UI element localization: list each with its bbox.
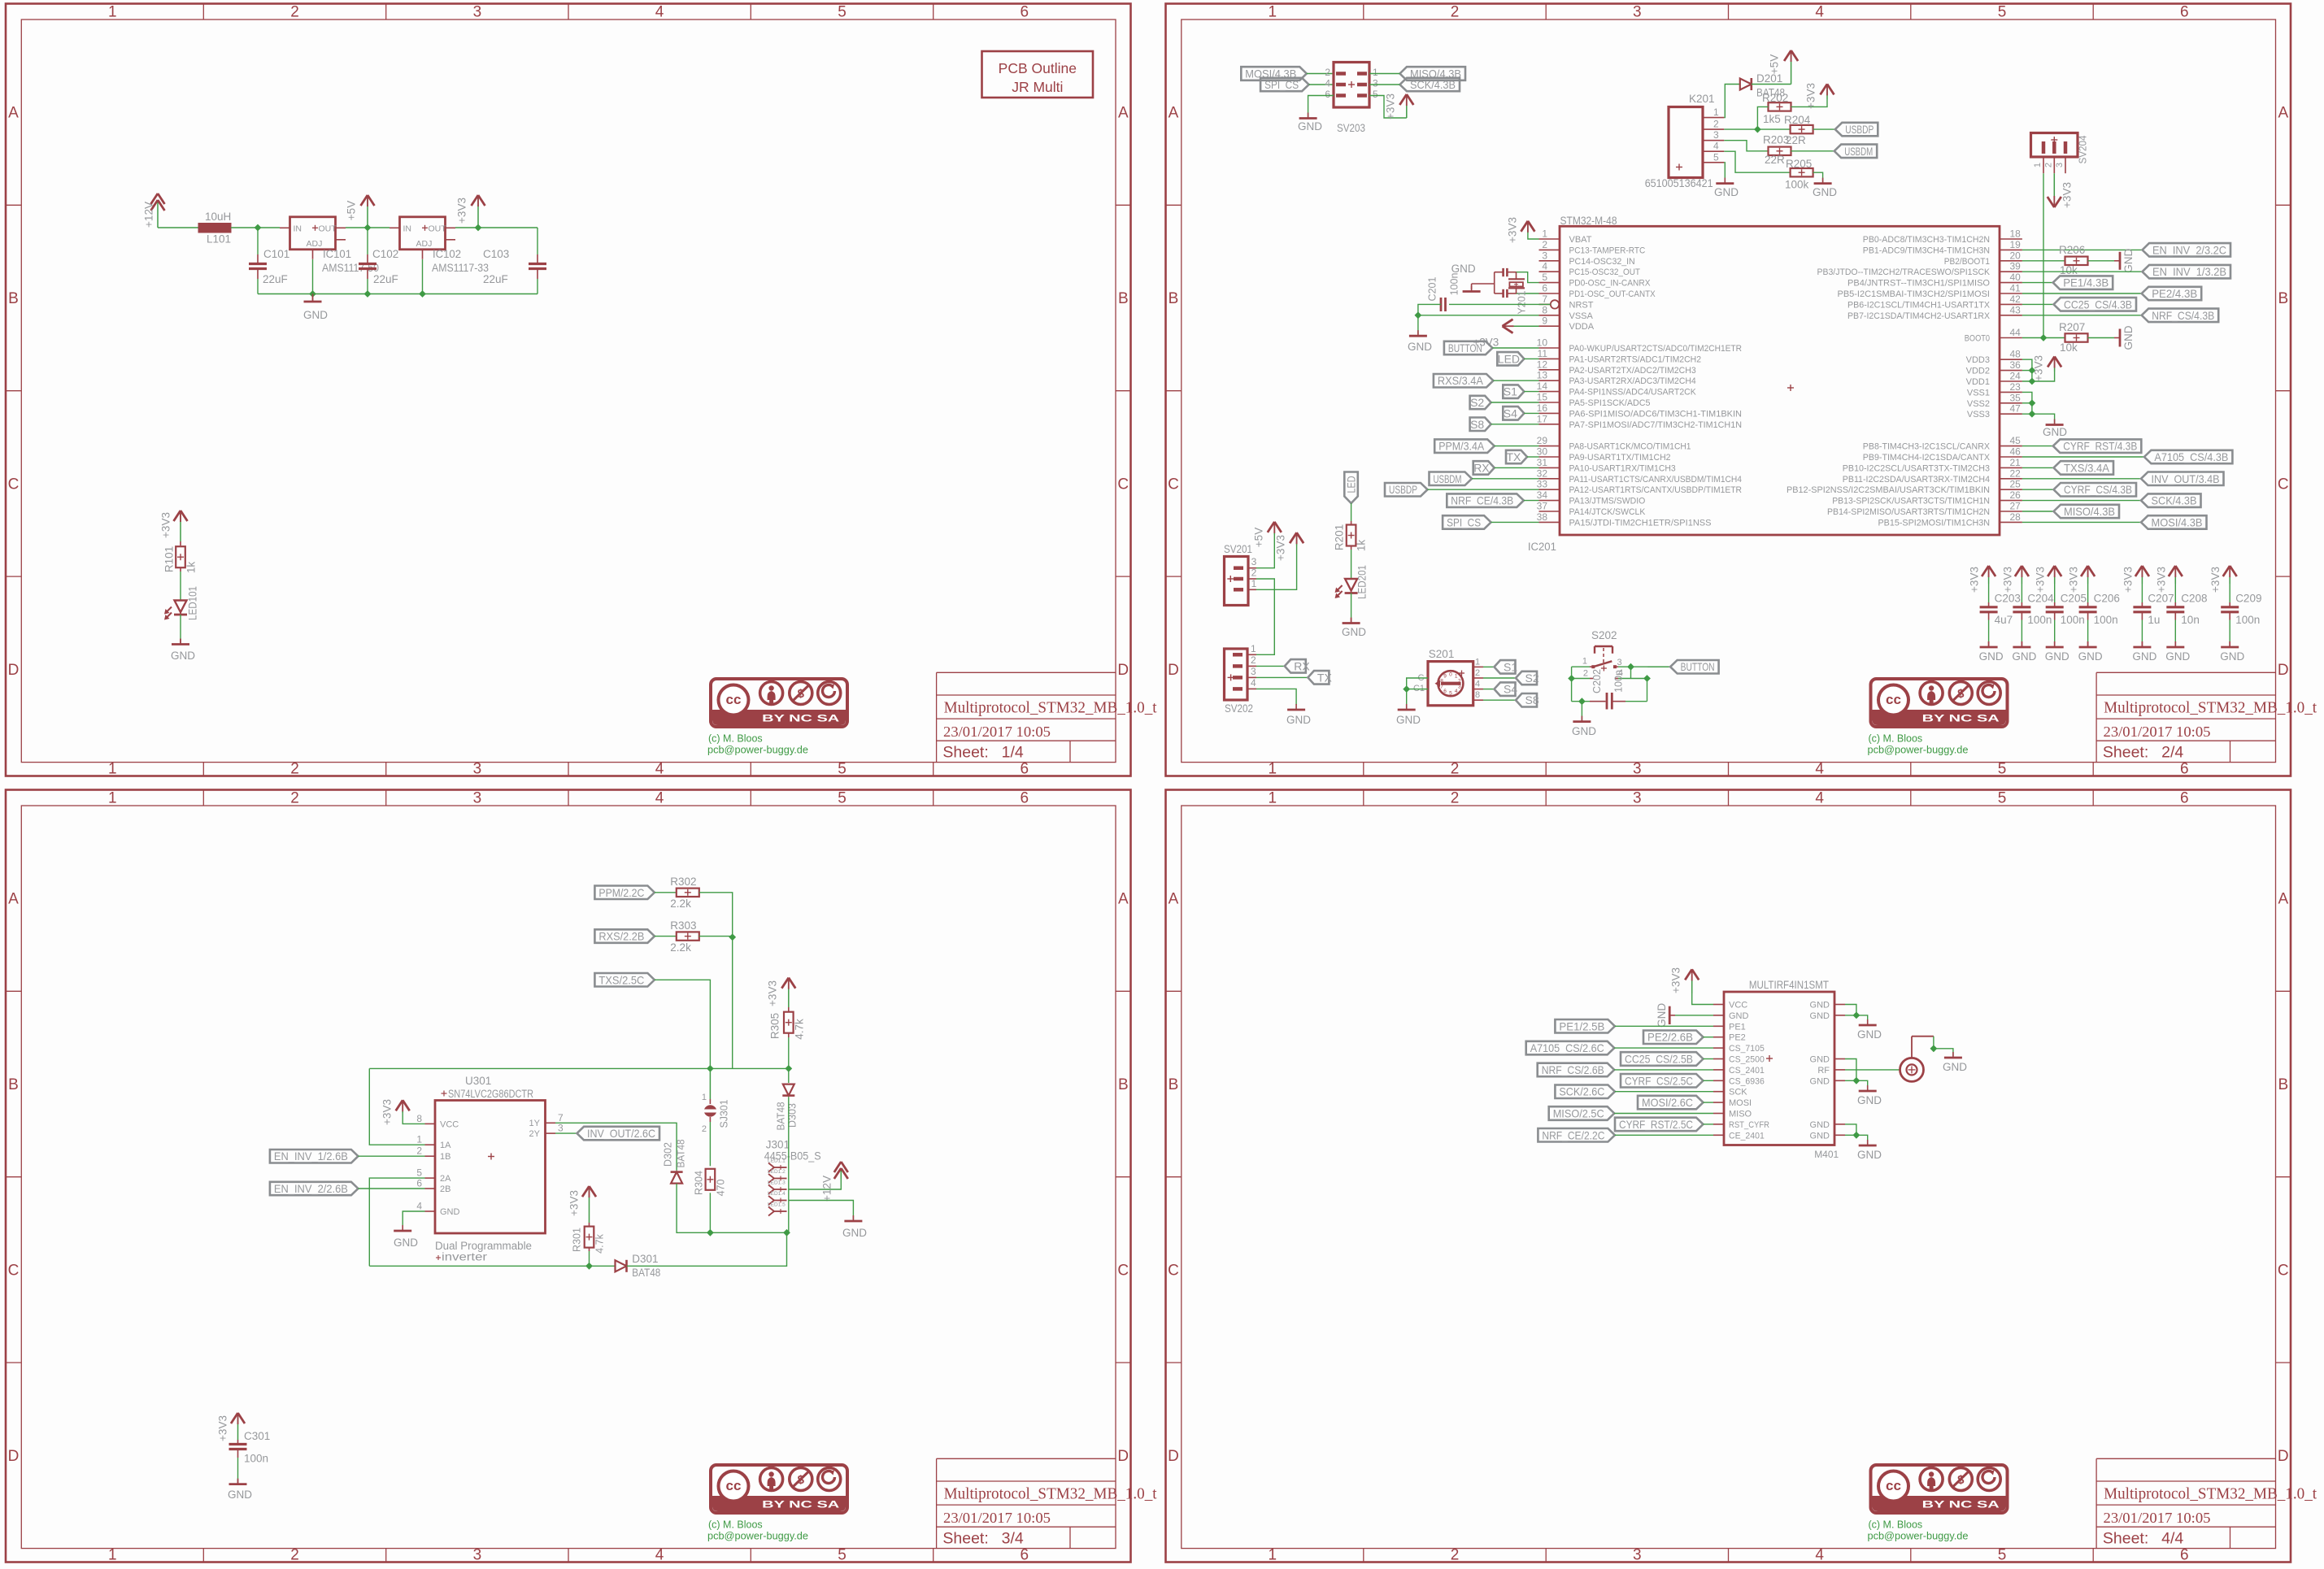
microcontroller IC201 STM32-M-48: [1528, 215, 2000, 553]
wire K201 pin3 to R203: [1724, 141, 1768, 151]
resistor R205 100k: [1785, 158, 1813, 191]
GND rail: [258, 293, 537, 295]
svg-text:PPM/3.4A: PPM/3.4A: [1438, 440, 1485, 453]
IC201 VDD/VSS pins: [1966, 349, 2022, 420]
svg-text:1: 1: [416, 1134, 422, 1145]
copyright text: [707, 733, 808, 756]
VSS wiring to GND: [2022, 392, 2055, 424]
IC201 pins 18-43 right top: [1817, 228, 2022, 321]
svg-text:R302: R302: [670, 876, 696, 888]
resistor R305 4.7k: [769, 1007, 806, 1040]
svg-text:GND: GND: [1810, 1120, 1830, 1130]
svg-text:2: 2: [290, 761, 299, 778]
svg-text:R101: R101: [163, 546, 176, 572]
svg-text:U301: U301: [465, 1075, 491, 1087]
net flag EN_INV_2/3.2C: [2143, 243, 2231, 257]
svg-text:CS_2401: CS_2401: [1729, 1066, 1765, 1076]
svg-text:44: 44: [2010, 327, 2022, 338]
svg-text:IC102: IC102: [433, 248, 461, 260]
svg-text:LED101: LED101: [187, 586, 199, 620]
svg-text:100n: 100n: [244, 1453, 268, 1465]
sheet frame: [6, 4, 1131, 778]
svg-text:C: C: [8, 1262, 20, 1279]
ground symbol GND: [303, 294, 328, 322]
sheet frame: [1166, 790, 2291, 1564]
voltage regulator IC102 AMS1117-33: [390, 217, 489, 274]
svg-text:PD0-OSC_IN-CANRX: PD0-OSC_IN-CANRX: [1569, 279, 1652, 289]
svg-text:IN: IN: [294, 224, 302, 233]
svg-text:LED201: LED201: [1356, 565, 1369, 599]
CC BY-NC-SA logo: [711, 679, 847, 727]
net flag LED (vertical): [1344, 472, 1358, 504]
svg-text:A: A: [2278, 891, 2288, 908]
wire SV202 pin4 to GND: [1256, 689, 1296, 705]
wire pin20 to R206: [2022, 260, 2065, 262]
module GND pins mid to GND: [1845, 1059, 1868, 1090]
svg-text:GND: GND: [1729, 1011, 1749, 1021]
svg-text:5: 5: [416, 1167, 422, 1179]
svg-text:PA0-WKUP/USART2CTS/ADC0/TIM2CH: PA0-WKUP/USART2CTS/ADC0/TIM2CH1ETR: [1569, 344, 1743, 354]
ground symbol GND (R205): [1813, 178, 1837, 198]
svg-text:4: 4: [1542, 261, 1547, 272]
svg-text:R206: R206: [2059, 244, 2085, 256]
svg-text:GND: GND: [1810, 1055, 1830, 1065]
sheet frame: [1166, 4, 2291, 778]
svg-text:3: 3: [1633, 790, 1642, 807]
svg-text:LED1.3: LED1.3: [768, 1180, 786, 1186]
wire LED101 to GND: [180, 615, 181, 645]
lower rail (2A net): [369, 1263, 615, 1270]
wire R101 to LED101: [180, 572, 181, 601]
wire TXS down to SJ301: [655, 980, 711, 1068]
resistor R206 10k: [2059, 244, 2088, 276]
svg-text:1: 1: [108, 1547, 117, 1564]
capacitor C201 100n: [1418, 277, 1551, 315]
+5V power symbol: [346, 195, 375, 228]
svg-text:B: B: [8, 290, 19, 307]
svg-text:MOSI/2.6C: MOSI/2.6C: [1642, 1096, 1693, 1109]
net flag NRF_CE/4.3B: [1447, 493, 1538, 507]
svg-text:+3V3: +3V3: [1805, 83, 1817, 109]
svg-text:BUTTON: BUTTON: [1448, 341, 1482, 354]
wire R202 left junction: [1754, 106, 1769, 133]
svg-text:AMS1117-33: AMS1117-33: [432, 262, 489, 274]
ground symbol GND (C301): [228, 1479, 252, 1501]
net flag RX (SV202): [1285, 659, 1311, 673]
wire J301 pin4 to GND: [789, 1201, 854, 1220]
svg-text:48: 48: [2010, 349, 2022, 360]
svg-text:C209: C209: [2235, 593, 2261, 605]
svg-text:C: C: [1168, 1262, 1179, 1279]
svg-text:5: 5: [1373, 89, 1378, 100]
svg-text:100n: 100n: [2061, 614, 2085, 626]
svg-text:1: 1: [1269, 4, 1277, 21]
svg-text:4: 4: [1815, 790, 1824, 807]
svg-text:651005136421: 651005136421: [1645, 177, 1713, 189]
svg-text:4.7k: 4.7k: [594, 1233, 606, 1253]
svg-text:19: 19: [2010, 239, 2022, 250]
svg-text:S8: S8: [1525, 693, 1539, 706]
svg-text:3/4: 3/4: [1002, 1530, 1024, 1548]
svg-text:2.2k: 2.2k: [670, 898, 691, 910]
wire pin39 to EN_INV_1: [2022, 271, 2143, 272]
net flag BUTTON: [1444, 341, 1539, 354]
svg-text:2/4: 2/4: [2161, 744, 2183, 762]
svg-text:RXS/3.4A: RXS/3.4A: [1438, 374, 1484, 387]
svg-text:3: 3: [1633, 761, 1642, 778]
svg-text:3: 3: [1458, 685, 1461, 690]
wire 1Y to D302: [555, 1123, 677, 1170]
svg-text:C: C: [1117, 1262, 1129, 1279]
svg-text:18: 18: [2010, 228, 2022, 240]
svg-text:ADJ: ADJ: [307, 239, 323, 249]
svg-text:C201: C201: [1427, 277, 1438, 302]
svg-text:SN74LVC2G86DCTR: SN74LVC2G86DCTR: [448, 1088, 533, 1100]
ground symbol GND (K201): [1714, 178, 1739, 198]
antenna connector X401: [1900, 1037, 1934, 1082]
net flag MISO/4.3B: [1400, 67, 1466, 80]
net flag S1: [1503, 385, 1538, 398]
wire RXS to R303: [655, 936, 677, 937]
svg-text:3: 3: [1251, 556, 1257, 567]
svg-text:IN: IN: [403, 224, 412, 233]
svg-text:+3V3: +3V3: [456, 198, 468, 224]
wire SV201 pin2 to SV202 pin1: [1256, 579, 1274, 654]
svg-text:4: 4: [1455, 689, 1458, 694]
svg-text:GND: GND: [1286, 714, 1311, 726]
svg-text:cc: cc: [726, 692, 742, 707]
svg-text:PE1: PE1: [1729, 1022, 1746, 1032]
svg-text:4: 4: [655, 1547, 664, 1564]
svg-text:31: 31: [1537, 457, 1548, 468]
junction node C101 tap: [255, 224, 262, 232]
svg-text:cc: cc: [726, 1478, 742, 1493]
net flag MOSI/2.6C: [1638, 1096, 1713, 1110]
svg-text:GND: GND: [1714, 186, 1739, 198]
net flag SCK/4.3B: [1400, 78, 1460, 91]
svg-text:A: A: [8, 891, 19, 908]
capacitor C101 22uF: [249, 228, 289, 294]
svg-text:2: 2: [2044, 163, 2054, 167]
svg-text:2: 2: [1251, 654, 1256, 666]
svg-text:4: 4: [1815, 1547, 1824, 1564]
svg-text:42: 42: [2010, 293, 2022, 305]
wire IC101 out: [346, 227, 390, 228]
wire LED flag to R201: [1351, 503, 1352, 521]
svg-text:GND: GND: [1810, 1076, 1830, 1086]
svg-text:+3V3: +3V3: [767, 980, 779, 1006]
net flag CYRF_CS/2.5C: [1621, 1074, 1713, 1088]
wire K201 pin1 to D201: [1724, 85, 1740, 118]
svg-text:1: 1: [1269, 1547, 1277, 1564]
svg-text:36: 36: [2010, 359, 2022, 371]
svg-text:Multiprotocol_STM32_MB_1.0_t: Multiprotocol_STM32_MB_1.0_t: [2104, 700, 2317, 717]
svg-text:6: 6: [2180, 1547, 2189, 1564]
svg-text:S2: S2: [1525, 671, 1539, 685]
svg-text:1: 1: [108, 4, 117, 21]
IC201 pins 29-38: [1537, 435, 1742, 528]
svg-text:3: 3: [473, 4, 482, 21]
svg-text:2: 2: [290, 790, 299, 807]
svg-text:OUT: OUT: [319, 224, 337, 233]
svg-text:4: 4: [1713, 141, 1719, 152]
svg-text:A: A: [1118, 105, 1129, 122]
svg-text:470: 470: [716, 1180, 727, 1197]
+5V power symbol (SV201): [1253, 522, 1282, 547]
ground symbol GND (module mid): [1857, 1085, 1882, 1106]
svg-text:USBDP: USBDP: [1845, 123, 1874, 136]
resistor R204 22R: [1784, 114, 1813, 146]
svg-text:4: 4: [1325, 78, 1330, 89]
svg-text:6: 6: [1021, 761, 1029, 778]
svg-text:PA7-SPI1MOSI/ADC7/TIM3CH2-TIM1: PA7-SPI1MOSI/ADC7/TIM3CH2-TIM1CH1N: [1569, 420, 1743, 430]
capacitor C206 100n: [2068, 566, 2120, 663]
svg-text:7: 7: [1542, 293, 1547, 305]
svg-text:1u: 1u: [2148, 614, 2160, 626]
svg-text:LED1.5: LED1.5: [768, 1202, 786, 1208]
capacitor C209 100n: [2209, 566, 2261, 663]
wire U301 GND pin: [403, 1211, 424, 1229]
svg-text:1: 1: [1475, 657, 1480, 667]
svg-text:Sheet:: Sheet:: [2103, 1530, 2148, 1548]
svg-text:NRF_CS/2.6B: NRF_CS/2.6B: [1542, 1063, 1604, 1076]
resistor R202 1k5: [1762, 92, 1791, 125]
svg-text:10: 10: [1537, 337, 1548, 349]
svg-text:+3V3: +3V3: [217, 1415, 229, 1441]
svg-text:VBAT: VBAT: [1569, 235, 1592, 245]
svg-text:JR Multi: JR Multi: [1012, 79, 1063, 95]
svg-text:S201: S201: [1429, 648, 1455, 660]
svg-text:2: 2: [1451, 790, 1460, 807]
svg-text:CYRF_CS/4.3B: CYRF_CS/4.3B: [2064, 483, 2132, 496]
svg-text:GND: GND: [440, 1207, 460, 1217]
net flag USBDM: [1430, 472, 1539, 486]
svg-text:USBDM: USBDM: [1434, 472, 1462, 485]
svg-text:23/01/2017 10:05: 23/01/2017 10:05: [2104, 1510, 2211, 1526]
svg-text:GND: GND: [1656, 1003, 1668, 1028]
svg-text:GND: GND: [1408, 341, 1432, 353]
connector SV202: [1225, 643, 1257, 715]
svg-text:LED1.4: LED1.4: [768, 1191, 786, 1197]
svg-text:PA9-USART1TX/TIM1CH2: PA9-USART1TX/TIM1CH2: [1569, 453, 1671, 463]
capacitor C204 100n: [2001, 566, 2054, 663]
svg-text:22: 22: [2010, 467, 2022, 479]
svg-text:1: 1: [1269, 790, 1277, 807]
svg-text:EN_INV_1/2.6B: EN_INV_1/2.6B: [274, 1150, 348, 1163]
svg-text:inverter: inverter: [442, 1251, 488, 1263]
svg-text:R305: R305: [769, 1013, 781, 1039]
net flag CYRF_RST/4.3B: [2022, 439, 2141, 453]
svg-text:0: 0: [1449, 671, 1452, 677]
svg-text:+3V3: +3V3: [160, 512, 172, 538]
wire R305 to rail: [788, 1037, 790, 1068]
svg-text:3: 3: [1542, 250, 1547, 261]
svg-text:16: 16: [1537, 402, 1548, 414]
wire R203 to USBDM: [1791, 150, 1834, 152]
svg-text:22R: 22R: [1765, 154, 1785, 166]
svg-text:C207: C207: [2148, 593, 2174, 605]
svg-text:+3V3: +3V3: [568, 1190, 581, 1216]
svg-text:SV203: SV203: [1337, 122, 1365, 134]
wire SV203 to MISO: [1369, 73, 1400, 75]
svg-text:24: 24: [2010, 371, 2022, 382]
svg-text:GND: GND: [1857, 1094, 1882, 1106]
svg-text:S202: S202: [1591, 629, 1617, 641]
svg-text:2: 2: [1583, 669, 1588, 679]
svg-text:MOSI: MOSI: [1729, 1098, 1752, 1108]
svg-text:(c) M. Bloos: (c) M. Bloos: [1869, 1519, 1923, 1531]
net flag RX: [1473, 461, 1539, 475]
capacitor C301 100n: [229, 1430, 271, 1484]
net flag NRF_CE/2.2C: [1538, 1128, 1713, 1142]
svg-text:CS_2500: CS_2500: [1729, 1055, 1765, 1065]
svg-text:+3V3: +3V3: [1670, 967, 1682, 993]
svg-text:A7105_CS/4.3B: A7105_CS/4.3B: [2154, 450, 2228, 463]
svg-text:5: 5: [838, 4, 846, 21]
svg-text:K201: K201: [1689, 93, 1715, 105]
wire L101 to IC101: [231, 227, 280, 228]
svg-text:GND: GND: [1857, 1028, 1882, 1041]
svg-text:(c) M. Bloos: (c) M. Bloos: [708, 733, 763, 745]
svg-text:D: D: [2278, 662, 2289, 679]
svg-text:PA5-SPI1SCK/ADC5: PA5-SPI1SCK/ADC5: [1569, 398, 1651, 408]
svg-text:+3V3: +3V3: [2061, 182, 2074, 208]
svg-text:PA11-USART1CTS/CANRX/USBDM/TIM: PA11-USART1CTS/CANRX/USBDM/TIM1CH4: [1569, 475, 1743, 485]
svg-text:PA10-USART1RX/TIM1CH3: PA10-USART1RX/TIM1CH3: [1569, 463, 1676, 473]
net flag S4 (S201): [1495, 682, 1518, 696]
svg-text:5: 5: [1998, 790, 2007, 807]
svg-text:A: A: [1169, 105, 1179, 122]
svg-text:3: 3: [1373, 78, 1378, 89]
net flag RXS/2.2B: [594, 929, 655, 943]
wire R204 to USBDP: [1813, 128, 1835, 130]
net flag BUTTON (S202): [1670, 660, 1719, 674]
svg-text:4: 4: [416, 1201, 422, 1212]
wire SV201 pin3 to +5V: [1256, 535, 1274, 568]
title block: [2096, 672, 2317, 762]
svg-text:MOSI/4.3B: MOSI/4.3B: [2152, 515, 2203, 528]
svg-text:C: C: [1168, 476, 1179, 493]
+3V3 arrow left (VDDA): [1473, 319, 1538, 349]
svg-text:IC201: IC201: [1528, 541, 1556, 553]
wire SV203 pin5 to +3V3: [1369, 96, 1407, 119]
net flag CC25_CS/4.3B: [2054, 298, 2137, 311]
net flag CC25_CS/2.5B: [1621, 1052, 1713, 1066]
svg-text:PB11-I2C2SDA/USART3RX-TIM2CH4: PB11-I2C2SDA/USART3RX-TIM2CH4: [1843, 475, 1990, 485]
svg-text:R303: R303: [670, 919, 696, 932]
svg-text:B: B: [1118, 1076, 1129, 1093]
connector SV201: [1224, 543, 1257, 606]
svg-text:NRF_CS/4.3B: NRF_CS/4.3B: [2152, 309, 2214, 322]
svg-text:3: 3: [1617, 658, 1622, 667]
svg-text:S4: S4: [1504, 683, 1517, 696]
svg-text:1: 1: [1582, 657, 1587, 667]
svg-text:Sheet:: Sheet:: [2103, 744, 2148, 762]
net flag TXS/2.5C: [594, 973, 655, 987]
svg-text:C: C: [8, 476, 20, 493]
wire RF to antenna: [1845, 1069, 1900, 1071]
svg-text:100n: 100n: [2235, 614, 2260, 626]
svg-text:SPI_CS: SPI_CS: [1264, 78, 1299, 91]
module GND pins top to GND: [1845, 1005, 1868, 1024]
svg-text:2Y: 2Y: [529, 1129, 541, 1139]
svg-text:D: D: [2278, 1448, 2289, 1465]
svg-text:1A: 1A: [440, 1141, 451, 1150]
svg-text:10k: 10k: [2060, 341, 2078, 354]
svg-text:GND: GND: [1810, 1011, 1830, 1021]
svg-text:GND: GND: [2012, 650, 2036, 663]
title block: [937, 1458, 1158, 1548]
+3V3 power symbol (R202): [1805, 83, 1834, 109]
svg-text:4: 4: [655, 790, 664, 807]
svg-text:5: 5: [838, 1547, 846, 1564]
junction +3V3 / C103: [475, 224, 482, 232]
wire MOSI to SV203: [1307, 73, 1334, 75]
svg-text:PB5-I2C1SMBAI-TIM3CH2/SPI1MOSI: PB5-I2C1SMBAI-TIM3CH2/SPI1MOSI: [1838, 289, 1991, 299]
svg-text:100n: 100n: [1449, 273, 1460, 296]
svg-text:C: C: [2278, 476, 2289, 493]
svg-text:6: 6: [1021, 790, 1029, 807]
svg-text:PCB Outline: PCB Outline: [999, 60, 1077, 76]
svg-text:23/01/2017 10:05: 23/01/2017 10:05: [943, 724, 1051, 740]
svg-text:GND: GND: [1979, 650, 2004, 663]
svg-text:C101: C101: [263, 248, 289, 260]
svg-text:PC14-OSC32_IN: PC14-OSC32_IN: [1569, 257, 1635, 267]
svg-text:8: 8: [416, 1113, 422, 1124]
svg-text:RX: RX: [1473, 461, 1490, 474]
wire pin 2A to lower rail: [369, 1178, 424, 1266]
net flag PE1/2.5B: [1555, 1019, 1713, 1033]
svg-text:PA1-USART2RTS/ADC1/TIM2CH2: PA1-USART2RTS/ADC1/TIM2CH2: [1569, 354, 1702, 364]
svg-text:2: 2: [1451, 1547, 1460, 1564]
svg-text:pcb@power-buggy.de: pcb@power-buggy.de: [1868, 745, 1969, 756]
svg-text:2: 2: [1451, 761, 1460, 778]
+5V power symbol (USB): [1769, 50, 1799, 85]
svg-text:GND: GND: [171, 650, 195, 662]
net flag MISO/4.3B: [2022, 505, 2119, 518]
svg-text:PB7-I2C1SDA/TIM4CH2-USART1RX: PB7-I2C1SDA/TIM4CH2-USART1RX: [1847, 311, 1991, 321]
svg-text:C202: C202: [1591, 669, 1603, 693]
svg-text:(c) M. Bloos: (c) M. Bloos: [1869, 733, 1923, 745]
svg-text:22uF: 22uF: [483, 273, 508, 285]
svg-text:C205: C205: [2061, 593, 2087, 605]
resistor R203 22R: [1763, 134, 1791, 167]
voltage regulator IC101 AMS1117-50: [280, 217, 379, 274]
wire R207 to GND: [2088, 337, 2115, 339]
svg-text:GND: GND: [2220, 650, 2244, 663]
svg-text:C208: C208: [2181, 593, 2207, 605]
svg-text:GND: GND: [2043, 426, 2067, 438]
svg-text:Multiprotocol_STM32_MB_1.0_t: Multiprotocol_STM32_MB_1.0_t: [944, 1486, 1158, 1503]
svg-text:17: 17: [1537, 413, 1548, 424]
svg-text:38: 38: [1537, 511, 1548, 523]
svg-text:TXS/2.5C: TXS/2.5C: [598, 973, 644, 986]
svg-text:6: 6: [1542, 283, 1547, 294]
svg-text:29: 29: [1537, 435, 1548, 446]
svg-text:CS_7105: CS_7105: [1729, 1044, 1765, 1054]
svg-text:1/4: 1/4: [1002, 744, 1024, 762]
net flag EN_INV_1/2.6B: [270, 1150, 425, 1163]
net flag EN_INV_1/3.2B: [2143, 265, 2231, 279]
svg-text:cc: cc: [1886, 1478, 1901, 1493]
resistor R207 10k: [2059, 321, 2088, 354]
svg-text:30: 30: [1537, 446, 1548, 458]
svg-text:4: 4: [655, 761, 664, 778]
svg-text:NRST: NRST: [1569, 300, 1594, 310]
svg-text:MULTIRF4IN1SMT: MULTIRF4IN1SMT: [1749, 979, 1829, 991]
svg-text:PA15/JTDI-TIM2CH1ETR/SPI1NSS: PA15/JTDI-TIM2CH1ETR/SPI1NSS: [1569, 518, 1712, 528]
wire SPI_CS to SV203: [1309, 84, 1334, 85]
